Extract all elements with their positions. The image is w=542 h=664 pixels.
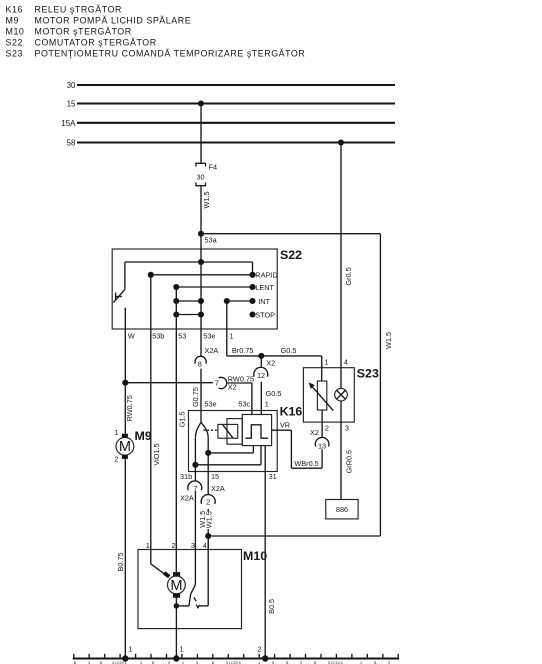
svg-text:1: 1 [180,644,184,653]
svg-text:2: 2 [114,454,118,463]
svg-text:2: 2 [325,424,329,433]
svg-text:53c: 53c [238,399,250,408]
svg-text:M: M [119,439,131,455]
svg-text:Br0.75: Br0.75 [232,346,254,355]
svg-text:2: 2 [206,497,210,506]
svg-text:COMUTATOR şTERGĂTOR: COMUTATOR şTERGĂTOR [35,37,157,47]
svg-text:15: 15 [211,472,219,481]
svg-text:STOP: STOP [255,310,275,319]
svg-text:W1.5: W1.5 [202,191,211,208]
svg-text:M10: M10 [243,549,267,563]
svg-text:1: 1 [146,541,150,550]
svg-text:4: 4 [344,358,348,367]
svg-text:2: 2 [257,644,261,653]
svg-text:31b: 31b [180,472,192,481]
svg-text:G1.5: G1.5 [178,411,187,427]
svg-text:W: W [128,332,135,341]
svg-text:X2: X2 [310,428,319,437]
svg-text:15A: 15A [61,119,76,128]
svg-text:W1.5: W1.5 [384,332,393,349]
svg-text:13: 13 [318,441,326,450]
svg-text:1: 1 [229,332,233,341]
svg-text:X2A: X2A [211,484,225,493]
svg-text:S23: S23 [6,48,23,58]
svg-text:S22: S22 [280,248,302,262]
svg-text:S23: S23 [357,367,379,381]
svg-text:MOTOR şTERGĂTOR: MOTOR şTERGĂTOR [35,26,132,36]
svg-text:3: 3 [345,424,349,433]
svg-text:GrR0.5: GrR0.5 [345,450,354,474]
svg-text:12: 12 [257,371,265,380]
svg-text:7: 7 [215,379,219,388]
svg-text:1: 1 [265,399,269,408]
svg-text:53a: 53a [205,236,218,245]
svg-text:4: 4 [203,541,207,550]
svg-text:MOTOR POMPĂ LICHID SPĂLARE: MOTOR POMPĂ LICHID SPĂLARE [35,15,192,25]
svg-text:15: 15 [67,100,76,109]
svg-text:886: 886 [336,505,348,514]
svg-text:LENT: LENT [255,283,274,292]
svg-text:M: M [170,578,182,594]
svg-text:WBr0.5: WBr0.5 [294,459,318,468]
svg-text:53e: 53e [203,332,215,341]
svg-text:G0.75: G0.75 [191,387,200,407]
svg-text:53: 53 [178,332,186,341]
svg-text:8: 8 [198,359,202,368]
svg-text:58: 58 [67,139,76,148]
svg-text:G0.5: G0.5 [266,389,282,398]
svg-text:53b: 53b [152,332,164,341]
svg-text:1: 1 [114,428,118,437]
svg-text:X2A: X2A [205,346,219,355]
svg-text:M10: M10 [6,26,25,36]
svg-text:X2A: X2A [180,494,194,503]
svg-text:53e: 53e [204,399,216,408]
svg-text:B0.75: B0.75 [116,552,125,571]
svg-text:K16: K16 [6,4,23,14]
svg-text:S22: S22 [6,37,23,47]
svg-text:RW0.75: RW0.75 [125,395,134,421]
svg-text:F4: F4 [209,163,218,172]
svg-text:K16: K16 [280,404,303,418]
svg-text:30: 30 [197,172,205,181]
svg-text:X2: X2 [266,358,275,367]
svg-text:Gr0.5: Gr0.5 [344,267,353,285]
svg-text:3: 3 [191,541,195,550]
svg-text:RELEU şTRGĂTOR: RELEU şTRGĂTOR [35,4,122,14]
svg-text:2: 2 [172,541,176,550]
svg-text:B0.5: B0.5 [267,599,276,614]
svg-text:31: 31 [269,472,277,481]
svg-text:VR: VR [280,420,290,429]
svg-text:1: 1 [128,644,132,653]
svg-text:INT: INT [258,297,270,306]
svg-text:M9: M9 [6,15,19,25]
svg-text:POTENŢIOMETRU COMANDĂ TEMPORIZ: POTENŢIOMETRU COMANDĂ TEMPORIZARE şTERGĂ… [35,48,306,58]
svg-text:G0.5: G0.5 [281,346,297,355]
svg-text:1: 1 [325,358,329,367]
svg-text:X2: X2 [228,382,237,391]
svg-text:W1.5: W1.5 [204,511,213,528]
svg-text:M9: M9 [135,429,152,443]
svg-text:RAPID: RAPID [255,271,277,280]
svg-text:ViO1.5: ViO1.5 [152,443,161,465]
svg-text:30: 30 [67,81,76,90]
